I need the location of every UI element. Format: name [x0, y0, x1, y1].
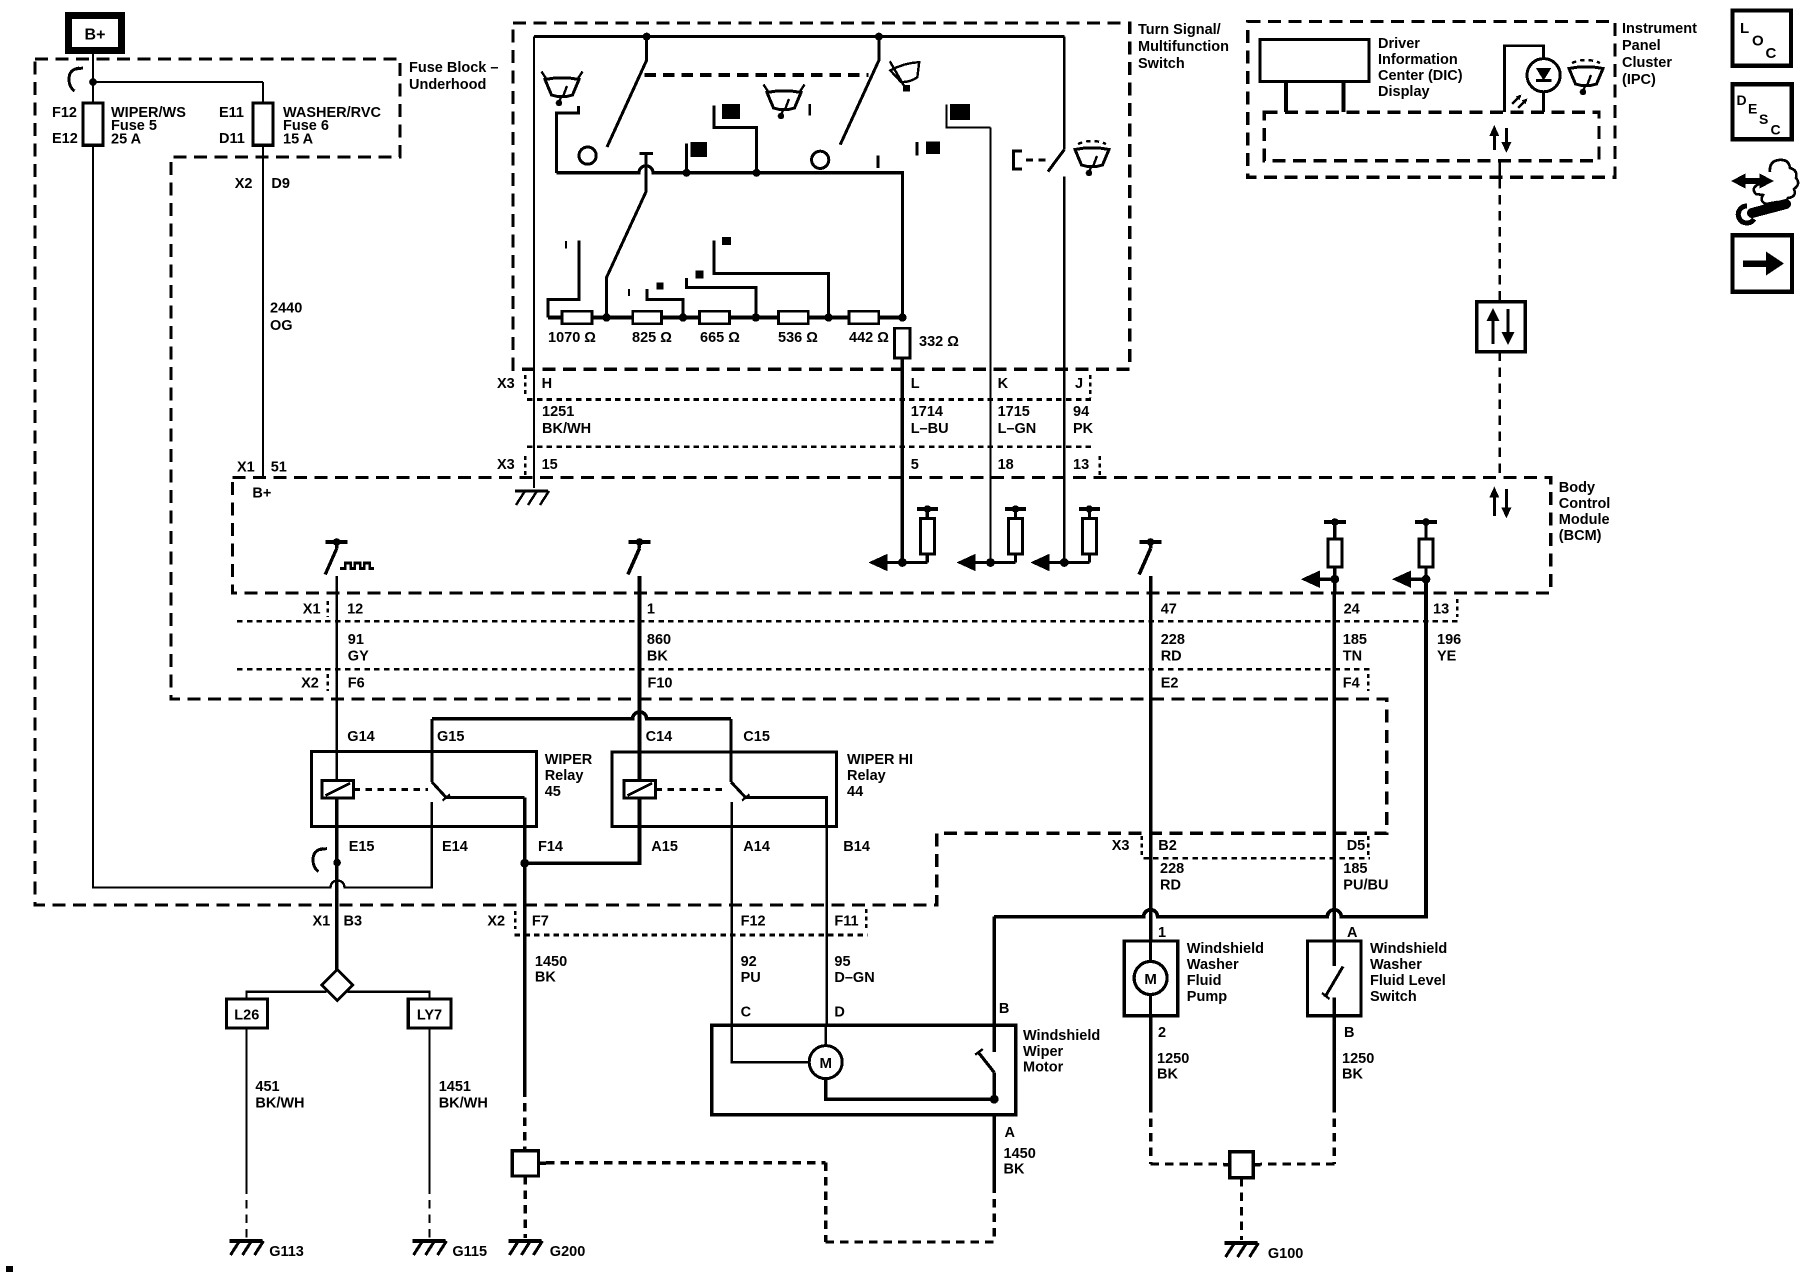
svg-text:S: S	[1759, 111, 1768, 127]
svg-text:Washer: Washer	[1370, 957, 1422, 973]
node chain after R3	[752, 313, 760, 321]
svg-text:1714: 1714	[911, 404, 943, 420]
svg-text:Cluster: Cluster	[1622, 55, 1672, 71]
wire 2440 OG from fuse 6 to BCM X1-51	[262, 145, 264, 477]
svg-text:BK: BK	[647, 649, 668, 665]
icon forward arrow box	[1733, 235, 1793, 291]
wire 95 D-GN relay 44 B14 to motor D	[826, 827, 828, 1025]
wire B+ bus to fuse 6	[93, 81, 263, 83]
svg-text:860: 860	[647, 632, 671, 648]
node bus pad A	[753, 169, 761, 177]
svg-text:442 Ω: 442 Ω	[849, 330, 889, 346]
svg-text:196: 196	[1437, 632, 1461, 648]
wire 196 YE BCM pin 13 down to motor B tie	[1424, 593, 1428, 917]
wire E14 below relay 45 blade	[431, 802, 433, 826]
ground G200	[508, 1239, 541, 1243]
fluid level switch blade	[1333, 941, 1336, 966]
wiper switch blade 1	[607, 37, 647, 147]
BCM input pull-up for wire L	[872, 561, 927, 564]
svg-text:94: 94	[1073, 404, 1089, 420]
connector LY7 box	[408, 999, 451, 1028]
svg-text:451: 451	[255, 1079, 279, 1095]
svg-text:Motor: Motor	[1023, 1060, 1064, 1076]
svg-text:15 A: 15 A	[283, 132, 314, 148]
svg-text:B: B	[1344, 1025, 1354, 1041]
washer switch	[1014, 151, 1023, 169]
svg-text:Center (DIC): Center (DIC)	[1378, 68, 1463, 84]
wire 185 TN/PU-BU BCM pin 24 to fluid level switch	[1333, 593, 1337, 941]
svg-text:Control: Control	[1559, 496, 1611, 512]
wiper icon left	[545, 78, 579, 97]
bus tap hook at E15	[313, 849, 323, 872]
resistor 1070 ohm	[562, 311, 592, 323]
wire J 94 PK to BCM	[1063, 177, 1065, 563]
svg-text:E11: E11	[219, 105, 244, 121]
svg-text:A15: A15	[651, 839, 678, 855]
svg-text:X1: X1	[303, 602, 321, 618]
wire F14 down from relay 45	[523, 798, 527, 864]
svg-text:L: L	[1740, 20, 1749, 37]
svg-text:825 Ω: 825 Ω	[632, 330, 672, 346]
svg-text:YE: YE	[1437, 649, 1457, 665]
svg-text:M: M	[1144, 971, 1157, 988]
svg-text:O: O	[1752, 33, 1764, 50]
svg-text:M: M	[819, 1055, 832, 1072]
svg-text:RD: RD	[1160, 878, 1181, 894]
svg-text:Pump: Pump	[1187, 989, 1227, 1005]
svg-text:L: L	[911, 376, 920, 392]
svg-text:1251: 1251	[542, 404, 574, 420]
svg-text:24: 24	[1344, 602, 1360, 618]
svg-text:1: 1	[1158, 925, 1166, 941]
contact tick right of circle 2	[877, 156, 880, 169]
contact tick and pad right	[916, 142, 919, 156]
switch internal top bus	[534, 35, 1064, 38]
wire 1250 BK pump to splice	[1149, 1016, 1153, 1104]
svg-text:J: J	[1075, 376, 1083, 392]
page corner mark	[6, 1266, 13, 1272]
svg-text:TN: TN	[1343, 649, 1362, 665]
contact pad B with lead	[685, 143, 688, 172]
node chain after R1	[602, 313, 610, 321]
resistor 332 ohm	[895, 328, 911, 358]
svg-text:B2: B2	[1158, 838, 1177, 854]
svg-text:PU/BU: PU/BU	[1343, 878, 1388, 894]
icon LOC box	[1733, 11, 1792, 66]
svg-text:F12: F12	[741, 914, 766, 930]
svg-text:Relay: Relay	[545, 768, 584, 784]
wire 228 RD BCM pin 47 to washer pump	[1149, 593, 1153, 941]
svg-text:F10: F10	[648, 676, 673, 692]
relay 44 coil-contact dashed link	[656, 788, 728, 791]
mechanical link dashed	[645, 73, 869, 77]
wiper relay 45 coil	[322, 781, 354, 798]
contact pad A with lead	[714, 106, 757, 173]
svg-text:665 Ω: 665 Ω	[700, 330, 740, 346]
svg-text:D9: D9	[271, 176, 290, 192]
svg-text:1451: 1451	[439, 1079, 471, 1095]
svg-text:Fluid Level: Fluid Level	[1370, 973, 1446, 989]
svg-text:Washer: Washer	[1187, 957, 1239, 973]
windshield washer fluid pump box	[1124, 941, 1177, 1016]
BCM serial data arrows	[1493, 493, 1496, 516]
splice box on 1450 BK	[512, 1151, 538, 1176]
dotted separator under B2 D5	[1143, 857, 1370, 860]
relay 44 switch blade	[731, 782, 746, 798]
svg-text:332 Ω: 332 Ω	[919, 334, 959, 350]
ground symbol H inside BCM	[515, 489, 548, 492]
relay 45 coil-contact dashed link	[354, 788, 429, 791]
wire A14 below relay 44 blade	[730, 802, 732, 827]
svg-text:C: C	[1766, 45, 1777, 62]
svg-text:25 A: 25 A	[111, 132, 142, 148]
svg-text:13: 13	[1433, 602, 1449, 618]
svg-text:5: 5	[911, 457, 919, 473]
contact tick mid	[808, 104, 811, 116]
svg-text:BK/WH: BK/WH	[439, 1096, 488, 1112]
svg-text:91: 91	[348, 632, 364, 648]
washer fluid level switch box	[1308, 941, 1362, 1016]
svg-text:B+: B+	[85, 27, 106, 44]
BCM driver 2 wiper hi relay control	[628, 540, 650, 544]
wire C15 into wiper hi relay	[729, 719, 732, 782]
washer fluid indicator LED	[1505, 46, 1544, 112]
BCM input pull-up for wire K	[961, 561, 1016, 564]
svg-text:F11: F11	[834, 914, 858, 930]
wire 92 PU relay 44 A14 to motor C	[730, 827, 732, 1025]
svg-text:92: 92	[741, 954, 757, 970]
svg-text:Multifunction: Multifunction	[1138, 39, 1229, 55]
wire splice to LY7	[348, 992, 430, 999]
svg-text:H: H	[542, 376, 552, 392]
ground G113	[230, 1239, 263, 1243]
node B+ bus junction	[89, 78, 97, 86]
node chain after R4	[824, 313, 832, 321]
svg-text:Windshield: Windshield	[1023, 1028, 1100, 1044]
IPC wiper indicator icon	[1569, 67, 1603, 86]
wire splice to ground G200	[524, 1176, 527, 1238]
svg-text:185: 185	[1343, 861, 1367, 877]
svg-text:E2: E2	[1161, 676, 1179, 692]
svg-text:Windshield: Windshield	[1370, 941, 1447, 957]
svg-text:15: 15	[542, 457, 558, 473]
svg-text:A14: A14	[743, 839, 770, 855]
svg-text:X2: X2	[301, 676, 319, 692]
svg-text:51: 51	[271, 460, 287, 476]
svg-text:B+: B+	[252, 486, 271, 502]
svg-text:Body: Body	[1559, 480, 1595, 496]
svg-text:C15: C15	[743, 729, 770, 745]
contact circle 2	[812, 151, 829, 168]
svg-text:Switch: Switch	[1370, 989, 1417, 1005]
BCM input pull-up for wire J	[1034, 561, 1089, 564]
serial data wire gateway to BCM	[1499, 352, 1502, 478]
svg-text:BK: BK	[535, 970, 556, 986]
motor armature M	[732, 1025, 810, 1062]
svg-text:X2: X2	[487, 914, 505, 930]
svg-text:F4: F4	[1343, 676, 1360, 692]
svg-text:BK: BK	[1004, 1162, 1025, 1178]
svg-text:C: C	[741, 1005, 752, 1021]
feed tie motor B to 196 YE	[994, 910, 1426, 917]
svg-text:Underhood: Underhood	[409, 77, 486, 93]
svg-text:G14: G14	[347, 729, 374, 745]
svg-text:1250: 1250	[1157, 1051, 1189, 1067]
svg-text:F14: F14	[538, 839, 563, 855]
svg-text:G15: G15	[437, 729, 464, 745]
svg-text:PU: PU	[741, 970, 761, 986]
svg-text:BK: BK	[1157, 1067, 1178, 1083]
svg-text:X3: X3	[1112, 838, 1130, 854]
svg-text:E14: E14	[442, 839, 468, 855]
svg-text:GY: GY	[348, 649, 369, 665]
wire splice to ground G100	[1240, 1178, 1243, 1240]
wire G15 into wiper relay	[430, 719, 433, 782]
wire A motor ground output	[992, 1115, 996, 1185]
svg-text:RD: RD	[1161, 649, 1182, 665]
svg-text:Information: Information	[1378, 52, 1458, 68]
wire splice to wiper motor ground detour	[539, 1162, 547, 1165]
svg-text:Relay: Relay	[847, 768, 886, 784]
svg-text:(BCM): (BCM)	[1559, 528, 1602, 544]
tap after R2	[647, 289, 683, 318]
svg-text:X1: X1	[313, 914, 331, 930]
wiper hi relay 44 coil	[624, 781, 656, 798]
svg-text:1250: 1250	[1342, 1051, 1374, 1067]
svg-text:F7: F7	[532, 914, 549, 930]
wire 1250 BK fluid switch to splice	[1333, 1016, 1337, 1104]
svg-text:45: 45	[545, 784, 561, 800]
relay 44 contact to B14	[746, 798, 827, 827]
svg-text:228: 228	[1161, 632, 1185, 648]
svg-text:F12: F12	[52, 105, 77, 121]
relay 45 switch blade	[432, 782, 447, 798]
svg-text:D: D	[1737, 92, 1747, 108]
fuse block - underhood dashed outline	[35, 59, 1387, 905]
wire A15 coil return to F14 junction	[525, 798, 640, 863]
svg-text:Windshield: Windshield	[1187, 941, 1264, 957]
wire 1450 BK relay F14 output to splice S-G200	[523, 863, 527, 1088]
svg-text:BK/WH: BK/WH	[255, 1096, 304, 1112]
battery B+ terminal box	[69, 16, 122, 51]
svg-text:X3: X3	[497, 376, 515, 392]
splice box on 1250 BK	[1230, 1152, 1253, 1178]
svg-text:G115: G115	[452, 1244, 487, 1260]
svg-text:A: A	[1347, 925, 1358, 941]
driver information center display box	[1260, 39, 1369, 81]
connector X3 dotted separator 1	[527, 398, 1091, 401]
dotted separator B below BCM	[237, 668, 1371, 671]
node switch top left	[643, 33, 651, 41]
svg-text:1715: 1715	[998, 404, 1030, 420]
wire 91 GY BCM to wiper relay coil G14	[335, 593, 338, 781]
svg-text:18: 18	[998, 457, 1014, 473]
svg-text:G200: G200	[550, 1244, 585, 1260]
svg-text:B3: B3	[344, 914, 363, 930]
svg-text:(IPC): (IPC)	[1622, 72, 1656, 88]
wiper relay 45 box	[311, 751, 536, 826]
svg-text:WIPER HI: WIPER HI	[847, 752, 913, 768]
icon diagnostic wrench with arrows	[1741, 178, 1764, 184]
wire L 1714 from chain to BCM	[901, 358, 905, 562]
body control module BCM dashed box	[233, 478, 1551, 594]
svg-text:G100: G100	[1268, 1246, 1303, 1262]
svg-text:L–BU: L–BU	[911, 421, 949, 437]
svg-text:WIPER: WIPER	[545, 752, 593, 768]
svg-text:1: 1	[647, 602, 655, 618]
svg-text:E15: E15	[349, 839, 375, 855]
svg-text:1450: 1450	[535, 954, 567, 970]
tap after R3	[687, 278, 756, 318]
IPC serial data arrows	[1493, 131, 1496, 150]
connector L26 box	[226, 999, 267, 1028]
svg-text:44: 44	[847, 784, 863, 800]
BCM in-line pull-up pin 24	[1324, 520, 1346, 524]
fuse F5 WIPER/WS 25A	[83, 103, 103, 145]
svg-text:D5: D5	[1347, 838, 1366, 854]
serial data gateway box	[1477, 302, 1526, 352]
wiper icon middle	[767, 91, 801, 110]
contact pad K with lead to wire K	[950, 104, 970, 120]
node bus pad B	[683, 169, 691, 177]
svg-text:Wiper: Wiper	[1023, 1044, 1064, 1060]
svg-text:Fuse Block –: Fuse Block –	[409, 60, 498, 76]
svg-text:L26: L26	[234, 1008, 259, 1024]
windshield wiper motor box	[712, 1025, 1016, 1115]
wire 451 BK/WH to ground G113	[245, 1028, 247, 1185]
svg-text:LY7: LY7	[417, 1008, 442, 1024]
dotted separator A below BCM	[237, 620, 1459, 623]
svg-text:C14: C14	[646, 729, 673, 745]
svg-text:G113: G113	[269, 1244, 304, 1260]
svg-text:1070 Ω: 1070 Ω	[548, 330, 596, 346]
contact circle 1	[579, 147, 596, 164]
svg-text:L–GN: L–GN	[998, 421, 1037, 437]
bus tap hook at B+	[69, 68, 79, 91]
resistor 825 ohm	[633, 311, 662, 323]
wire H from switch to ground	[533, 37, 535, 488]
resistor chain bus	[548, 316, 902, 320]
svg-text:A: A	[1005, 1125, 1016, 1141]
intermittent wiper arm	[639, 152, 653, 155]
svg-text:2440: 2440	[270, 301, 302, 317]
svg-text:K: K	[998, 376, 1009, 392]
svg-text:13: 13	[1073, 457, 1089, 473]
wiper hi relay 44 box	[612, 752, 837, 827]
IPC inner dashed module box	[1264, 112, 1599, 161]
fuse F6 WASHER/RVC 15A	[253, 103, 273, 145]
svg-text:228: 228	[1160, 861, 1184, 877]
svg-text:47: 47	[1161, 602, 1177, 618]
node switch top right	[875, 33, 883, 41]
wire E15 relay coil return to splice	[335, 798, 338, 970]
wire J top segment switch right edge	[1063, 37, 1065, 150]
node F14-A15 junction	[520, 859, 529, 868]
svg-text:PK: PK	[1073, 421, 1094, 437]
connector X3 dotted separator 2	[527, 445, 1091, 448]
svg-text:D11: D11	[219, 131, 245, 147]
splice diamond on E15 ground path	[322, 970, 353, 1001]
svg-text:536 Ω: 536 Ω	[778, 330, 818, 346]
node chain after R2	[679, 313, 687, 321]
relay common tie G15 to C15	[432, 712, 731, 719]
svg-text:12: 12	[347, 602, 363, 618]
svg-text:E: E	[1748, 101, 1757, 117]
resistor 536 ohm	[778, 311, 808, 323]
washer pump motor M	[1149, 941, 1152, 962]
svg-text:F6: F6	[348, 676, 365, 692]
ground G100	[1225, 1241, 1258, 1245]
BCM driver 3 washer pump control	[1140, 540, 1162, 544]
svg-text:D–GN: D–GN	[834, 970, 874, 986]
instrument panel cluster IPC dashed box	[1248, 22, 1615, 178]
svg-text:BK: BK	[1342, 1067, 1363, 1083]
svg-text:Module: Module	[1559, 512, 1610, 528]
svg-text:X2: X2	[235, 176, 253, 192]
svg-text:D: D	[834, 1005, 844, 1021]
icon DESC box	[1733, 84, 1792, 139]
svg-text:E12: E12	[52, 131, 78, 147]
serial data wire IPC to gateway box	[1499, 161, 1502, 179]
svg-text:X1: X1	[237, 460, 255, 476]
svg-text:C: C	[1771, 122, 1781, 138]
wire 860 BK BCM to wiper hi relay coil C14	[638, 593, 642, 781]
svg-text:Panel: Panel	[1622, 38, 1661, 54]
tap after R4	[714, 241, 829, 318]
svg-text:OG: OG	[270, 318, 293, 334]
node chain right end	[898, 313, 906, 321]
wiper icon right tilted	[888, 54, 925, 89]
svg-text:Instrument: Instrument	[1622, 21, 1697, 37]
motor to park switch junction	[826, 1079, 995, 1100]
svg-text:X3: X3	[497, 457, 515, 473]
node E15 tap	[333, 859, 341, 867]
svg-text:Driver: Driver	[1378, 36, 1420, 52]
svg-text:2: 2	[1158, 1025, 1166, 1041]
svg-text:BK/WH: BK/WH	[542, 421, 591, 437]
svg-text:Fluid: Fluid	[1187, 973, 1222, 989]
wire motor A dashed detour to splice	[993, 1185, 996, 1243]
wire 1451 BK/WH to ground G115	[428, 1028, 430, 1185]
resistor chain left lead	[548, 241, 579, 318]
dotted separator under F7 F12 F11	[515, 934, 869, 937]
wire B into motor	[992, 917, 996, 1052]
turn signal/multifunction switch dashed box	[513, 23, 1130, 369]
BCM in-line pull-up pin 13	[1415, 520, 1437, 524]
resistor 665 ohm	[700, 311, 730, 323]
switch lower bus to resistor chain	[557, 166, 903, 318]
park switch blade	[993, 1072, 996, 1099]
wiper switch blade 2	[840, 37, 879, 145]
svg-text:Display: Display	[1378, 84, 1430, 100]
svg-text:B14: B14	[843, 839, 870, 855]
svg-text:Turn Signal/: Turn Signal/	[1138, 22, 1221, 38]
svg-text:95: 95	[834, 954, 850, 970]
svg-text:185: 185	[1343, 632, 1367, 648]
washer spray icon	[1075, 148, 1109, 167]
wire splice to L26	[247, 992, 327, 999]
DIC mounting legs	[1284, 82, 1288, 113]
svg-text:1450: 1450	[1004, 1146, 1036, 1162]
resistor 442 ohm	[849, 311, 879, 323]
BCM driver 1 wiper relay control	[326, 540, 348, 544]
svg-text:Switch: Switch	[1138, 56, 1185, 72]
wire OFF contact to bus	[557, 106, 579, 173]
svg-text:B: B	[999, 1001, 1009, 1017]
relay 45 contact to F14	[447, 796, 525, 799]
ground G115	[413, 1239, 446, 1243]
wire B+ feed down and across to relay E14	[93, 48, 432, 888]
